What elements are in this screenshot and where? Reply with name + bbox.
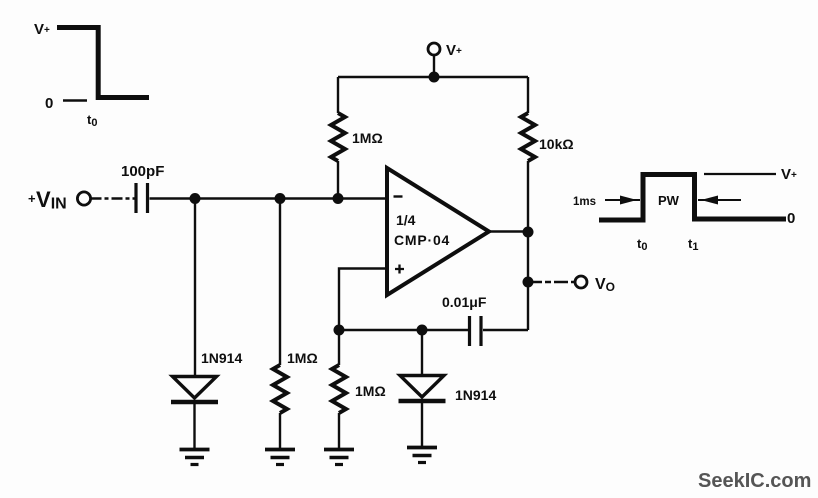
svg-text:+: + (28, 191, 36, 206)
label t0 (input waveform) (87, 112, 97, 129)
VO junction dot (523, 277, 534, 288)
input step waveform V+ to 0 (57, 28, 149, 101)
svg-text:V+: V+ (34, 21, 50, 38)
arrow 1ms to pulse (605, 196, 640, 205)
svg-text:1MΩ: 1MΩ (355, 383, 386, 399)
svg-text:1/4: 1/4 (396, 212, 416, 228)
svg-text:VIN: VIN (36, 187, 67, 213)
ground G2 (265, 450, 295, 465)
capacitor C2 0.01uF (470, 316, 482, 346)
wire plus input to node D (339, 269, 387, 331)
output pulse waveform (599, 175, 786, 221)
svg-text:t0: t0 (637, 236, 647, 253)
node B junction dot (275, 193, 286, 204)
label PW (658, 193, 680, 208)
arrow PW right (698, 196, 741, 205)
ground G1 (180, 450, 210, 465)
label VO (595, 276, 615, 294)
output node junction dot (523, 227, 534, 238)
wire to VO terminal (528, 281, 575, 283)
label t1 (pulse) (688, 236, 698, 253)
svg-text:SeekIC.com: SeekIC.com (698, 470, 811, 492)
diode D2 1N914 (399, 376, 446, 448)
label 10k ohm (R3) (539, 136, 574, 152)
label 1ms (573, 196, 596, 208)
svg-text:t1: t1 (688, 236, 698, 253)
wire node D down to R4 (338, 330, 340, 365)
svg-text:1N914: 1N914 (201, 350, 242, 366)
wire op-amp output to output node (489, 230, 528, 232)
node E junction dot (417, 325, 428, 336)
svg-text:PW: PW (658, 193, 680, 208)
label 0.01uF (442, 294, 487, 310)
wire node E down to D2 (421, 330, 423, 395)
node D junction dot (334, 325, 345, 336)
resistor R1 1M ohm (331, 77, 345, 161)
wire input terminal to C1 (91, 197, 135, 199)
wire rail to V+ terminal (433, 55, 435, 77)
label 1N914 (D2) (455, 387, 496, 403)
svg-text:V+: V+ (781, 166, 797, 183)
wire node A down to D1 (194, 199, 196, 397)
svg-text:1MΩ: 1MΩ (287, 350, 318, 366)
svg-text:1N914: 1N914 (455, 387, 496, 403)
label V+ (input waveform) (34, 21, 50, 38)
V+ rail junction dot (429, 72, 440, 83)
label 0 (input waveform) (45, 95, 53, 112)
ground G4 (407, 448, 437, 463)
svg-text:t0: t0 (87, 112, 97, 129)
label 1/4 (396, 212, 416, 228)
wire node B down to R2 (279, 199, 281, 366)
resistor R4 1M ohm (332, 365, 346, 449)
svg-text:10kΩ: 10kΩ (539, 136, 574, 152)
svg-text:VO: VO (595, 276, 615, 294)
V+ reference line (pulse) (704, 173, 776, 175)
node C junction dot (333, 193, 344, 204)
label V+ (pulse) (781, 166, 797, 183)
ground G3 (324, 450, 354, 465)
V+ terminal circle (428, 43, 440, 55)
label +VIN (28, 187, 67, 213)
label V+ (supply) (446, 42, 462, 59)
svg-text:V+: V+ (446, 42, 462, 59)
watermark SeekIC.com (698, 470, 811, 492)
input terminal circle (77, 192, 90, 205)
op-amp plus sign (395, 265, 404, 274)
wire rail to R3 (527, 77, 529, 113)
svg-text:0: 0 (787, 210, 795, 227)
resistor R2 1M ohm (273, 365, 287, 449)
label 1N914 (D1) (201, 350, 242, 366)
svg-text:1ms: 1ms (573, 196, 596, 208)
label 1M ohm (R4) (355, 383, 386, 399)
svg-text:1MΩ: 1MΩ (352, 130, 383, 146)
node A junction dot (190, 193, 201, 204)
wire C2 to node D (339, 329, 468, 331)
VO terminal circle (575, 276, 587, 288)
svg-text:100pF: 100pF (121, 163, 164, 180)
capacitor C1 100pF (136, 183, 148, 213)
label 1M ohm (R2) (287, 350, 318, 366)
label CMP-04 (394, 232, 450, 248)
label t0 (pulse) (637, 236, 647, 253)
op-amp U1 1/4 CMP-04 (387, 168, 489, 295)
diode D1 1N914 (171, 377, 218, 450)
V+ supply rail (338, 76, 528, 78)
feedback wire output to C2 (483, 329, 528, 331)
svg-text:CMP·04: CMP·04 (394, 232, 450, 248)
label 1M ohm (R1) (352, 130, 383, 146)
label 100pF (121, 163, 164, 180)
wire output node down (527, 232, 529, 330)
wire C1 to op-amp minus input (150, 197, 388, 199)
op-amp minus sign (394, 195, 403, 197)
svg-text:0: 0 (45, 95, 53, 112)
label 0 (pulse) (787, 210, 795, 227)
resistor R3 10k ohm (521, 113, 535, 232)
svg-text:0.01μF: 0.01μF (442, 294, 487, 310)
wire node C up to R1 (337, 161, 339, 199)
